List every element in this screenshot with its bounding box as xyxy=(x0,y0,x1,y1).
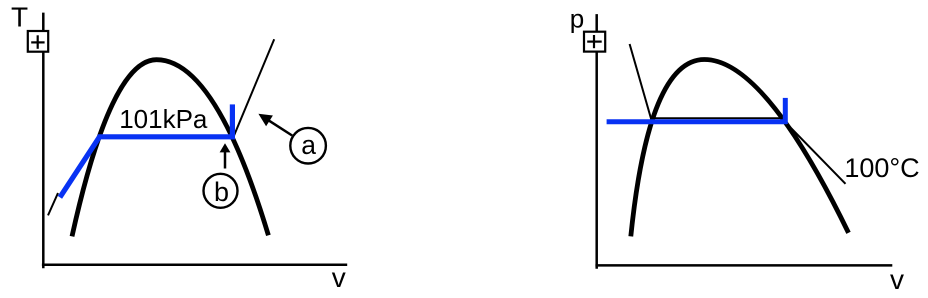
svg-text:v: v xyxy=(332,262,346,293)
svg-text:T: T xyxy=(11,1,28,32)
svg-text:v: v xyxy=(890,264,904,295)
svg-text:a: a xyxy=(301,130,316,160)
svg-text:100°C: 100°C xyxy=(844,153,919,183)
svg-text:b: b xyxy=(214,177,229,207)
svg-text:101kPa: 101kPa xyxy=(119,104,208,134)
svg-text:p: p xyxy=(570,4,584,34)
